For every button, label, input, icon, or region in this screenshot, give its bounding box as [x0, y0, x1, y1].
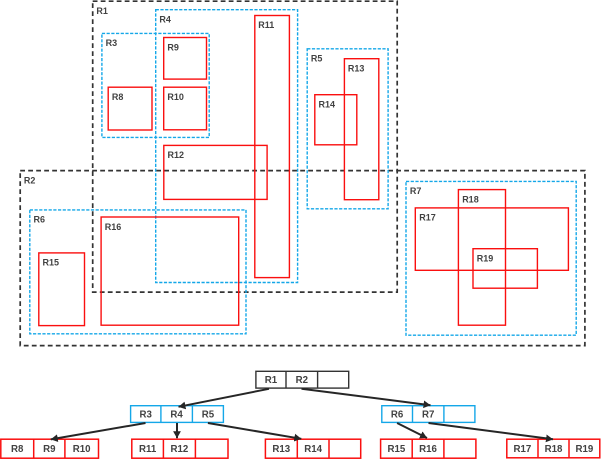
svg-text:R1: R1	[96, 6, 108, 16]
tree leaf node [R13|R14|empty]	[265, 439, 360, 458]
svg-text:R19: R19	[576, 444, 594, 455]
region R2 (black dashed MBR)	[20, 171, 585, 346]
arrow R6 cell to leaf [R15 R16]	[397, 423, 427, 438]
svg-text:R11: R11	[139, 444, 157, 455]
tree internal node [R6|R7|empty]	[382, 406, 475, 423]
svg-text:R14: R14	[319, 100, 336, 110]
rectangle R15 (red data rect)	[39, 253, 85, 326]
region R5 (cyan dashed MBR)	[307, 49, 388, 209]
tree internal node [R3|R4|R5]	[131, 406, 224, 423]
svg-text:R6: R6	[34, 215, 46, 225]
region R7 (cyan dashed MBR)	[406, 181, 576, 335]
svg-text:R4: R4	[170, 409, 183, 420]
svg-text:R13: R13	[348, 63, 365, 73]
svg-text:R18: R18	[545, 444, 563, 455]
svg-text:R2: R2	[24, 175, 36, 185]
svg-text:R16: R16	[419, 444, 437, 455]
rectangle R11 (red data rect)	[255, 16, 290, 278]
svg-text:R7: R7	[422, 409, 434, 420]
svg-text:R9: R9	[167, 42, 179, 52]
rectangle R18 (red data rect)	[458, 190, 505, 326]
svg-text:R10: R10	[73, 444, 91, 455]
svg-text:R9: R9	[43, 444, 56, 455]
svg-text:R8: R8	[112, 92, 124, 102]
rectangle R14 (red data rect)	[315, 95, 357, 145]
rectangle R19 (red data rect)	[473, 249, 537, 289]
arrow R5 cell to leaf [R13 R14]	[208, 423, 301, 439]
svg-text:R12: R12	[171, 444, 189, 455]
arrow R3 cell to leaf [R8 R9 R10]	[51, 423, 146, 439]
rectangle R8 (red data rect)	[108, 87, 152, 130]
rectangle R17 (red data rect)	[415, 208, 568, 270]
svg-text:R13: R13	[272, 444, 290, 455]
svg-text:R5: R5	[311, 54, 323, 64]
svg-text:R10: R10	[167, 92, 184, 102]
svg-text:R8: R8	[11, 444, 24, 455]
svg-text:R15: R15	[43, 258, 60, 268]
tree leaf node [R8|R9|R10]	[1, 439, 99, 458]
tree leaf node [R17|R18|R19]	[507, 439, 600, 458]
arrow R4 cell to leaf [R11 R12]	[176, 423, 178, 438]
region R3 (cyan dashed MBR)	[102, 33, 209, 137]
arrow root R1 cell to node [R3 R4 R5]	[179, 389, 270, 407]
rectangle R16 (red data rect)	[101, 217, 239, 325]
rectangle R10 (red data rect)	[164, 87, 207, 130]
tree root node [R1|R2|empty]	[256, 371, 349, 388]
svg-text:R12: R12	[168, 150, 185, 160]
svg-text:R1: R1	[265, 375, 278, 386]
svg-text:R14: R14	[304, 444, 322, 455]
rectangle R12 (red data rect)	[164, 145, 267, 199]
svg-text:R7: R7	[410, 186, 422, 196]
svg-text:R17: R17	[514, 444, 532, 455]
svg-text:R11: R11	[258, 20, 274, 30]
svg-text:R19: R19	[477, 254, 494, 264]
region R1 (black dashed MBR)	[93, 1, 398, 292]
svg-text:R4: R4	[159, 15, 171, 25]
tree leaf node [R15|R16|empty]	[381, 439, 476, 458]
svg-text:R16: R16	[105, 222, 122, 232]
rectangle R9 (red data rect)	[164, 38, 207, 80]
svg-text:R17: R17	[419, 213, 436, 223]
region R6 (cyan dashed MBR)	[30, 210, 246, 334]
svg-text:R3: R3	[140, 409, 153, 420]
svg-text:R5: R5	[202, 409, 215, 420]
tree leaf node [R11|R12|empty]	[132, 439, 228, 458]
arrow root R2 cell to node [R6 R7]	[302, 389, 431, 405]
arrow R7 cell to leaf [R17 R18 R19]	[429, 423, 554, 439]
region R4 (cyan dashed MBR)	[156, 10, 298, 283]
rectangle R13 (red data rect)	[344, 59, 378, 200]
svg-text:R3: R3	[106, 38, 118, 48]
svg-text:R2: R2	[296, 375, 308, 386]
svg-text:R15: R15	[388, 444, 406, 455]
svg-text:R6: R6	[391, 409, 404, 420]
svg-text:R18: R18	[462, 194, 479, 204]
